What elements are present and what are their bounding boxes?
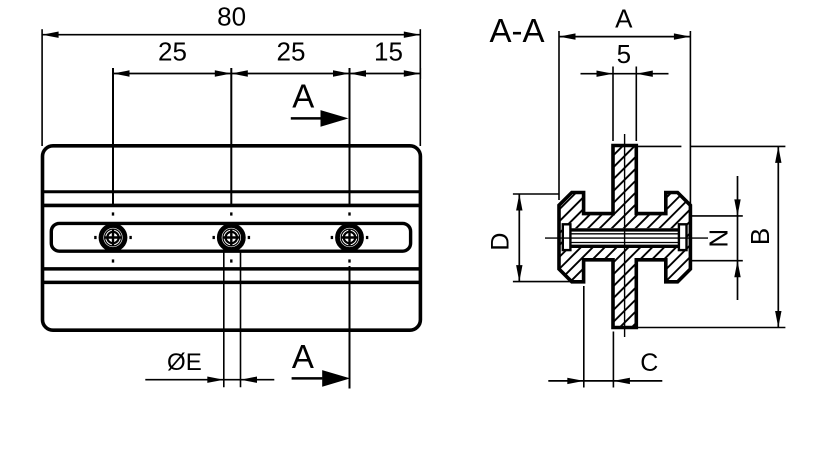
svg-text:A: A [292, 338, 314, 375]
hole 3 [338, 226, 362, 250]
dimension C [548, 286, 662, 388]
svg-text:C: C [640, 349, 658, 377]
dimension B [637, 146, 785, 327]
dimension 5 [581, 67, 669, 142]
horizontal centerline [545, 237, 708, 239]
chamfer top edge line [43, 204, 421, 208]
slot outline [51, 223, 410, 251]
section arrow A top [291, 110, 349, 127]
hole 2 centerline dots [213, 212, 251, 262]
svg-text:5: 5 [617, 39, 631, 69]
svg-text:25: 25 [277, 37, 306, 67]
hole 1 centerline dots [94, 212, 132, 262]
counterbore cap right [679, 224, 687, 250]
section hatching [367, 140, 827, 330]
svg-text:A-A: A-A [489, 12, 544, 49]
hole 3 centerline / section line [349, 68, 351, 207]
section profile outline [559, 146, 690, 328]
hole 1 [101, 226, 125, 250]
flange bottom edge line [43, 281, 421, 285]
vertical centerline [624, 134, 626, 337]
svg-text:B: B [745, 228, 775, 245]
svg-text:A: A [615, 4, 633, 34]
plate body outline [43, 146, 421, 330]
dimension 25 25 15 [113, 68, 420, 79]
section arrow A bottom [292, 370, 351, 387]
hole 2 [219, 226, 243, 250]
dimension 80 [42, 29, 420, 146]
chamfer bottom edge line [43, 267, 421, 271]
hole 3 centerline dots [331, 212, 369, 262]
hole 2 centerline [230, 68, 232, 207]
svg-text:D: D [487, 233, 515, 251]
svg-text:ØE: ØE [167, 349, 202, 376]
svg-text:25: 25 [158, 37, 187, 67]
svg-text:15: 15 [374, 37, 403, 67]
counterbore cap left [563, 224, 571, 250]
hole bore walls [570, 230, 679, 246]
hole bore white band [563, 228, 687, 248]
svg-text:80: 80 [217, 2, 246, 32]
dimension A [559, 31, 690, 205]
section profile fill [559, 146, 690, 328]
dimension OE (hole diameter) [145, 250, 274, 387]
hole 1 centerline [112, 68, 114, 207]
svg-text:A: A [292, 77, 314, 114]
svg-text:N: N [704, 229, 734, 248]
flange top edge line [43, 190, 421, 193]
dimension N [692, 176, 743, 300]
dimension D [513, 194, 572, 282]
